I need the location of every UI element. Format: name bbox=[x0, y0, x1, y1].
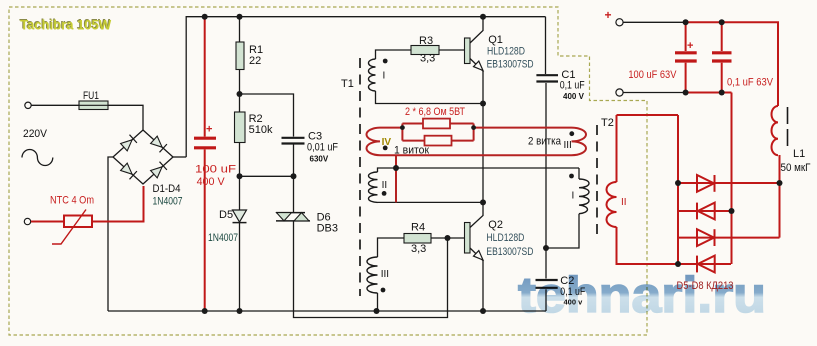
node R1/R2/C3 bbox=[237, 91, 243, 97]
resistor R3 bbox=[411, 35, 439, 65]
svg-text:EB13007SD: EB13007SD bbox=[486, 246, 533, 258]
diode D1 (top-left edge, points to top corner) bbox=[121, 140, 133, 151]
wire T2-II bottom line bbox=[617, 262, 679, 264]
svg-text:630V: 630V bbox=[310, 155, 329, 164]
dashed schematic border bbox=[9, 7, 647, 335]
node T1-I bottom / emitter chain bbox=[480, 101, 486, 107]
wire loop top bbox=[380, 127, 572, 129]
capacitor 0,1uF 63V (output) bbox=[712, 22, 732, 92]
wire Q1 emitter chain vertical bbox=[482, 71, 484, 202]
node T1-II top wire / red tap bbox=[393, 165, 399, 171]
T1 winding I bbox=[369, 59, 376, 91]
wire loop tap down to T1-II bottom bbox=[395, 155, 397, 202]
wire C1 vertical top bbox=[545, 17, 547, 74]
svg-text:1N4007: 1N4007 bbox=[208, 232, 238, 244]
node A midpoint bbox=[480, 199, 486, 205]
capacitor C3 bbox=[282, 138, 305, 177]
node top rail / red cap bbox=[202, 14, 208, 20]
svg-text:1N4007: 1N4007 bbox=[153, 196, 183, 208]
svg-text:III: III bbox=[381, 269, 389, 280]
capacitor C1 bbox=[536, 75, 558, 81]
node red loop right junction bbox=[471, 125, 476, 130]
svg-text:L1: L1 bbox=[793, 148, 805, 160]
svg-text:3,3: 3,3 bbox=[420, 53, 435, 65]
resistor 2*6.8 Ohm top bbox=[423, 119, 450, 129]
wire T1-I top to R3 bbox=[376, 50, 412, 59]
wire T2-I coil stems bbox=[546, 168, 579, 248]
svg-text:100 uF: 100 uF bbox=[195, 164, 236, 176]
diode D3 bar bbox=[130, 171, 137, 179]
wire D5 row bbox=[678, 182, 780, 184]
capacitor C2 bbox=[536, 280, 558, 288]
svg-text:400 V: 400 V bbox=[563, 92, 585, 101]
wire T1-II bottom to node A bbox=[378, 201, 484, 203]
node rail / D5 bbox=[237, 308, 243, 314]
node junction dots bbox=[202, 14, 783, 314]
svg-text:50 мкГ: 50 мкГ bbox=[781, 162, 811, 174]
wire R1 bottom to C3 top bbox=[240, 94, 294, 137]
watermark tehnari.ru bbox=[518, 267, 766, 323]
node output - / cap bbox=[683, 90, 689, 96]
svg-text:2 * 6,8 Ом 5ВТ: 2 * 6,8 Ом 5ВТ bbox=[405, 106, 465, 118]
wire bridge minus down to bottom rail bbox=[108, 157, 113, 311]
resistor 2*6.8 Ohm bottom bbox=[425, 136, 452, 146]
svg-text:R4: R4 bbox=[411, 222, 425, 234]
svg-text:NTC 4 Om: NTC 4 Om bbox=[50, 195, 94, 207]
svg-text:HLD128D: HLD128D bbox=[487, 46, 525, 58]
fuse FU1 bbox=[79, 90, 108, 110]
svg-text:HLD128D: HLD128D bbox=[486, 232, 524, 244]
bridge rectifier D1-D4 bbox=[113, 130, 173, 184]
wire diode left rail bbox=[677, 115, 679, 264]
svg-text:220V: 220V bbox=[23, 128, 48, 140]
transformer T2 core bbox=[596, 125, 598, 240]
wire R2/D5 - C3/D6 junction bbox=[240, 175, 294, 177]
node T1-I polarity dot bbox=[383, 59, 388, 64]
node red loop left junction bbox=[400, 125, 405, 130]
wire R4 to Q2 base bbox=[431, 237, 465, 239]
node output - / cap2 bbox=[719, 90, 725, 96]
svg-text:D1-D4: D1-D4 bbox=[153, 183, 181, 195]
svg-text:0,1 uF: 0,1 uF bbox=[560, 80, 585, 92]
T1 winding IV red loop, 1 turn hook bbox=[367, 128, 381, 156]
node Q2 base / diac loop bbox=[445, 235, 451, 241]
svg-text:DB3: DB3 bbox=[317, 222, 338, 234]
node rail / Q2 emitter bbox=[480, 308, 486, 314]
capacitor 100uF 400V (red electrolytic) bbox=[194, 17, 216, 311]
title Tachibra 105W bbox=[19, 17, 111, 33]
diode D2 (top-right edge, points to right corner) bbox=[151, 136, 163, 147]
svg-text:400 V: 400 V bbox=[197, 176, 226, 188]
wire bridge plus to rail riser bbox=[173, 156, 186, 158]
resistor R2 bbox=[235, 94, 273, 176]
svg-text:T1: T1 bbox=[341, 78, 354, 90]
svg-text:I: I bbox=[572, 191, 575, 202]
node T2-I polarity dot bbox=[569, 174, 574, 179]
wire D7 row bbox=[678, 237, 780, 239]
wire minus output vertical bbox=[731, 93, 733, 265]
svg-text:+: + bbox=[605, 8, 612, 22]
svg-text:III: III bbox=[564, 140, 572, 151]
diode D4 bar bbox=[160, 162, 167, 170]
wire output bottom bbox=[686, 92, 732, 94]
wire T2-II top to diode rail bbox=[617, 114, 679, 116]
node diode rail bottom bbox=[675, 261, 681, 267]
T2 winding I bbox=[579, 179, 589, 214]
wire Q2 emitter to rail bbox=[482, 261, 484, 312]
node T1-III polarity dot bbox=[381, 288, 386, 293]
wire bottom rail bbox=[108, 310, 546, 312]
T2 winding II (red secondary) bbox=[607, 115, 617, 262]
node T1-IV polarity dot bbox=[383, 146, 388, 151]
diode D2 bar bbox=[160, 144, 167, 152]
transistor Q2 bbox=[465, 202, 534, 260]
wire C1 bottom to C2 top midpoint bbox=[545, 83, 547, 279]
svg-text:EB13007SD: EB13007SD bbox=[487, 59, 534, 71]
svg-text:100 uF 63V: 100 uF 63V bbox=[628, 69, 677, 81]
wire D8 row bbox=[678, 263, 731, 265]
transformer T1 core bbox=[359, 58, 361, 296]
node D6 anode bbox=[729, 208, 735, 214]
output wires red bbox=[617, 22, 780, 264]
svg-text:+: + bbox=[687, 40, 693, 52]
wire L1 bottom to diode rows bbox=[779, 155, 781, 238]
wire output terminals black segments bbox=[623, 22, 686, 92]
wire input top: terminal to fuse to bridge bbox=[31, 105, 143, 130]
T1 winding III bbox=[367, 257, 378, 293]
T2 winding III red hook, 2 turns bbox=[572, 128, 587, 156]
AC sine symbol bbox=[22, 150, 53, 166]
svg-text:Q2: Q2 bbox=[488, 219, 503, 231]
svg-text:0,1 uF 63V: 0,1 uF 63V bbox=[727, 77, 774, 89]
node rail / T1-III bbox=[374, 308, 380, 314]
svg-text:T2: T2 bbox=[601, 117, 614, 129]
diode D8 output bbox=[697, 256, 715, 273]
terminal output minus bbox=[616, 89, 623, 96]
wire T1-III top to R4 bbox=[378, 238, 405, 257]
resistor R1 bbox=[236, 17, 263, 94]
node top rail / R1 bbox=[237, 14, 243, 20]
L1 core mark bbox=[787, 107, 789, 148]
svg-text:tehnari.ru: tehnari.ru bbox=[518, 267, 766, 323]
svg-text:II: II bbox=[382, 180, 388, 191]
diode D5 output bbox=[697, 175, 715, 192]
terminal output plus bbox=[616, 19, 623, 26]
svg-text:II: II bbox=[621, 197, 627, 208]
svg-text:2 витка: 2 витка bbox=[528, 136, 562, 148]
wire T1-III bottom to rail bbox=[377, 293, 379, 311]
diode D1 bar bbox=[130, 135, 137, 143]
svg-text:0,01 uF: 0,01 uF bbox=[307, 142, 338, 154]
node T2-III polarity dot bbox=[569, 131, 574, 136]
svg-text:D5: D5 bbox=[219, 209, 233, 221]
svg-text:Tachibra 105W: Tachibra 105W bbox=[20, 18, 111, 33]
diode D6 output bbox=[697, 203, 715, 220]
wire parallel resistor connectors bbox=[402, 124, 473, 141]
wire top rail bbox=[186, 17, 545, 157]
wire C2 bottom to rail bbox=[545, 289, 547, 311]
svg-text:+: + bbox=[206, 124, 212, 136]
svg-text:22: 22 bbox=[249, 55, 261, 67]
transistor Q1 bbox=[465, 17, 534, 71]
capacitor 100uF 63V (output) bbox=[675, 22, 697, 92]
node L1 / D5 row bbox=[777, 180, 783, 186]
wire R3 to Q1 base bbox=[439, 49, 465, 51]
red loop wires (series winding) bbox=[380, 124, 572, 203]
wire loop bottom bbox=[380, 154, 572, 156]
diode D4 (bottom-right edge, points to right corner) bbox=[151, 167, 163, 178]
wire T1-I bottom to emitter chain bbox=[376, 91, 484, 104]
svg-text:I: I bbox=[383, 71, 386, 82]
svg-text:Q1: Q1 bbox=[488, 34, 503, 46]
NTC thermistor bbox=[50, 195, 94, 245]
inductor L1 bbox=[772, 106, 779, 155]
wire output top rail bbox=[686, 22, 778, 106]
node R2/D5 junction bbox=[237, 173, 243, 179]
diac D6 DB3 bbox=[276, 176, 338, 234]
svg-text:D5-D8 КД213: D5-D8 КД213 bbox=[677, 280, 734, 292]
node rail / red cap bottom bbox=[202, 308, 208, 314]
diode D7 output bbox=[697, 229, 715, 246]
diode D3 (bottom-left edge, points to bottom corner) bbox=[121, 163, 133, 174]
wire T1-II top to T2-I top bbox=[378, 168, 580, 172]
node output + / cap2 bbox=[719, 19, 725, 25]
wire NTC red input bbox=[31, 186, 144, 222]
node C1-C2 midpoint / T2 return bbox=[543, 245, 549, 251]
node output + / cap bbox=[683, 19, 689, 25]
wire D6 row bbox=[678, 210, 732, 212]
node C3/D6 junction bbox=[291, 173, 297, 179]
svg-text:3,3: 3,3 bbox=[411, 243, 426, 255]
wire diac to Q2 base loop bbox=[294, 221, 448, 318]
svg-text:510k: 510k bbox=[249, 124, 273, 136]
node T1-II polarity dot bbox=[382, 191, 387, 196]
svg-text:R3: R3 bbox=[419, 35, 433, 47]
wires (main schematic, black) bbox=[31, 17, 686, 318]
svg-text:FU1: FU1 bbox=[83, 90, 99, 102]
diode D5 bbox=[208, 176, 247, 311]
terminal input top bbox=[25, 102, 31, 108]
resistor R4 bbox=[404, 222, 431, 256]
terminal input bottom bbox=[24, 218, 30, 224]
T1 winding II bbox=[369, 172, 378, 202]
node top rail / Q1 collector bbox=[480, 14, 486, 20]
node diode rail top bbox=[675, 180, 681, 186]
